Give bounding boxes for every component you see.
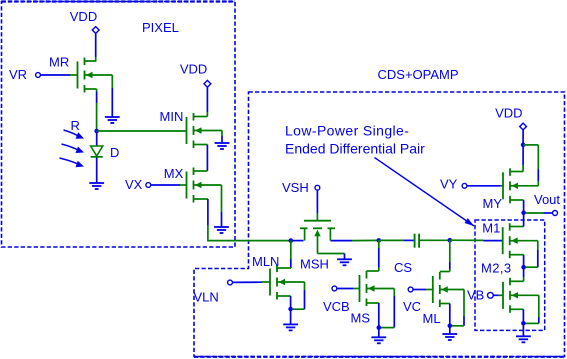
svg-text:VX: VX	[125, 177, 143, 192]
svg-text:R: R	[71, 118, 80, 133]
svg-text:Vout: Vout	[534, 192, 560, 207]
svg-text:Low-Power Single-: Low-Power Single-	[285, 123, 409, 139]
svg-text:D: D	[110, 145, 119, 160]
svg-text:MR: MR	[49, 54, 69, 69]
svg-text:MSH: MSH	[300, 257, 329, 272]
svg-text:Ended Differential Pair: Ended Differential Pair	[285, 140, 425, 156]
svg-text:VDD: VDD	[495, 106, 522, 121]
svg-text:VY: VY	[440, 177, 458, 192]
svg-text:CDS+OPAMP: CDS+OPAMP	[378, 67, 459, 82]
svg-text:VR: VR	[9, 67, 27, 82]
svg-text:M1: M1	[482, 220, 500, 235]
svg-text:MIN: MIN	[160, 109, 184, 124]
svg-text:VC: VC	[403, 299, 421, 314]
svg-text:VB: VB	[467, 288, 484, 303]
svg-text:VDD: VDD	[70, 9, 97, 24]
svg-text:VDD: VDD	[180, 61, 207, 76]
svg-text:MX: MX	[164, 166, 184, 181]
svg-text:MY: MY	[483, 196, 503, 211]
svg-text:CS: CS	[394, 260, 412, 275]
svg-text:M2,3: M2,3	[481, 261, 512, 276]
svg-text:VCB: VCB	[323, 299, 350, 314]
svg-text:ML: ML	[423, 311, 441, 326]
svg-text:VLN: VLN	[194, 290, 219, 305]
svg-text:MLN: MLN	[252, 254, 279, 269]
svg-text:PIXEL: PIXEL	[142, 20, 179, 35]
svg-text:MS: MS	[351, 311, 371, 326]
svg-text:VSH: VSH	[282, 180, 309, 195]
